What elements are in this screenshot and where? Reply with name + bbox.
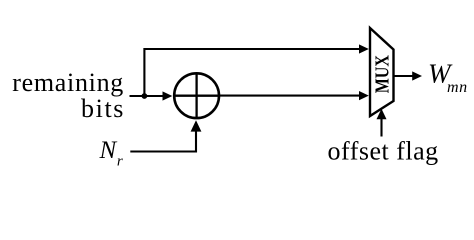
svg-text:offset flag: offset flag <box>328 137 439 166</box>
svg-text:bits: bits <box>81 94 125 123</box>
svg-text:Nr: Nr <box>99 137 123 169</box>
svg-text:remaining: remaining <box>12 68 124 97</box>
svg-text:MUX: MUX <box>371 55 393 93</box>
svg-text:Wmn: Wmn <box>428 59 468 97</box>
